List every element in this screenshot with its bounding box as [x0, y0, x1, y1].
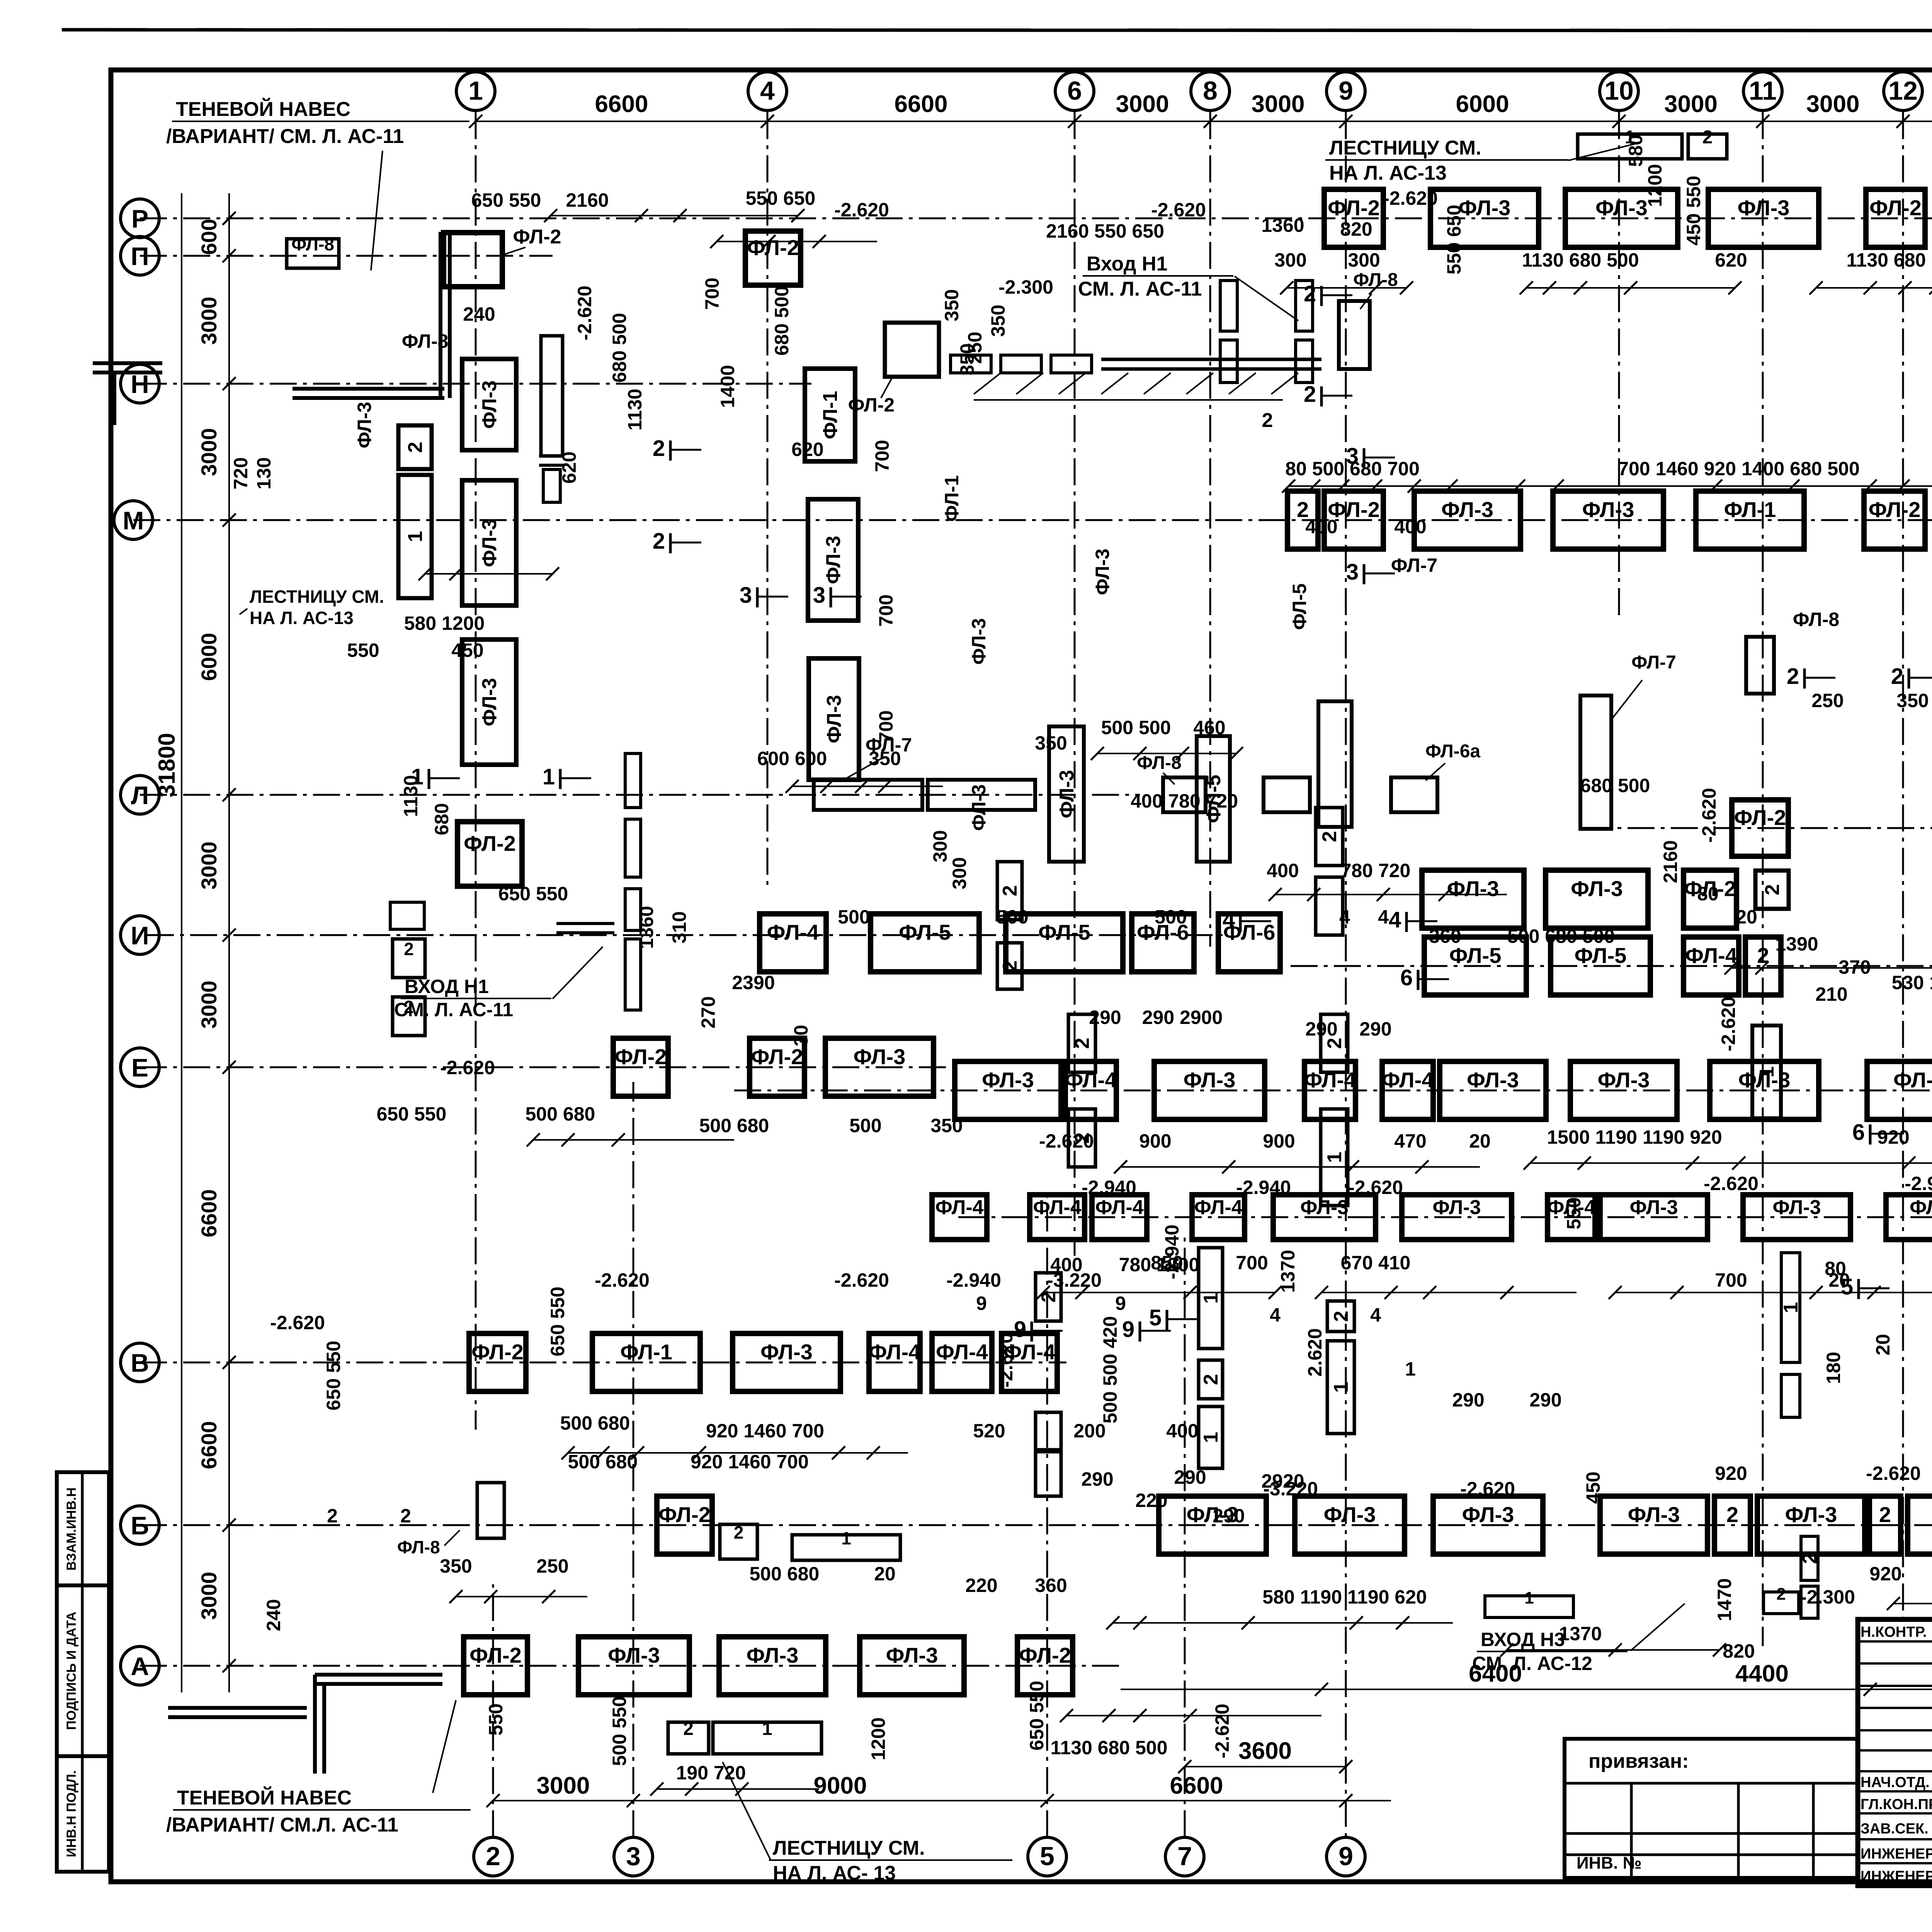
svg-text:ФЛ-7: ФЛ-7 [1631, 652, 1676, 673]
svg-text:ФЛ-4: ФЛ-4 [1382, 1068, 1434, 1092]
svg-text:ФЛ-8: ФЛ-8 [397, 1537, 440, 1557]
svg-text:ФЛ-3: ФЛ-3 [823, 695, 845, 743]
svg-text:400: 400 [1267, 860, 1299, 881]
foundation slab ФЛ-3 row Б [1159, 1496, 1266, 1554]
svg-text:ФЛ-3: ФЛ-3 [822, 536, 845, 584]
svg-text:9: 9 [1115, 1293, 1126, 1314]
svg-text:600: 600 [197, 219, 221, 255]
axis circle Л left [121, 776, 159, 814]
svg-text:620: 620 [791, 439, 823, 460]
svg-text:ФЛ-8: ФЛ-8 [291, 234, 334, 254]
wall block 1 col9 e [1327, 1341, 1354, 1434]
svg-text:1360: 1360 [1261, 214, 1304, 236]
svg-text:650 550: 650 550 [498, 883, 568, 905]
axis line 12 [1902, 112, 1904, 1617]
svg-text:НА Л. АС-13: НА Л. АС-13 [1329, 162, 1447, 184]
svg-text:520: 520 [973, 1420, 1005, 1442]
svg-text:450: 450 [1582, 1471, 1604, 1503]
sidebar box ИНВ.Н ПОДЛ. [57, 1756, 109, 1872]
foundation slab ФЛ-3 vert row Л [1049, 726, 1084, 862]
wall block 58 col1 [390, 902, 424, 929]
svg-text:3: 3 [1346, 444, 1359, 469]
svg-text:-2.940: -2.940 [946, 1269, 1001, 1291]
foundation slab 2 row Б [1869, 1496, 1901, 1554]
svg-text:ФЛ-2: ФЛ-2 [1328, 196, 1380, 220]
axis line Г [958, 1216, 1932, 1218]
foundation slab ФЛ-3 row Г [1600, 1195, 1708, 1240]
svg-text:920: 920 [1869, 1563, 1901, 1585]
wall block col5 c [1036, 1452, 1061, 1496]
svg-text:-2.940: -2.940 [1082, 1177, 1136, 1198]
svg-text:2: 2 [1071, 1038, 1094, 1049]
svg-text:3000: 3000 [197, 297, 221, 345]
foundation slab ФЛ-3 col4 a [808, 499, 858, 621]
svg-text:4: 4 [1370, 1304, 1381, 1326]
svg-text:-2.620: -2.620 [1211, 1704, 1233, 1759]
svg-text:НАЧ.ОТД.: НАЧ.ОТД. [1861, 1774, 1930, 1791]
svg-text:220: 220 [1135, 1490, 1167, 1511]
svg-text:130: 130 [253, 457, 275, 489]
svg-text:ТЕНЕВОЙ НАВЕС: ТЕНЕВОЙ НАВЕС [177, 1786, 352, 1809]
svg-text:ФЛ-3: ФЛ-3 [968, 784, 990, 831]
svg-text:1130 680 500: 1130 680 500 [1846, 249, 1932, 271]
svg-text:6600: 6600 [1170, 1772, 1223, 1799]
foundation slab 2 row Б [1714, 1496, 1750, 1554]
axis line 10 [1618, 112, 1620, 618]
foundation slab ФЛ-4 row В [1002, 1333, 1057, 1391]
svg-text:920 1460 700: 920 1460 700 [690, 1451, 809, 1473]
svg-text:720: 720 [230, 457, 252, 489]
foundation slab ФЛ-8 col1 row Б [477, 1483, 504, 1538]
foundation slab row Л c [1264, 777, 1310, 812]
wall block 2 col9 vert b [1316, 877, 1343, 935]
axis line Ж [1291, 965, 1932, 967]
svg-text:20: 20 [1872, 1334, 1894, 1355]
svg-text:-2.620: -2.620 [1348, 1177, 1403, 1198]
svg-text:ФЛ-3: ФЛ-3 [854, 1044, 906, 1069]
svg-text:ЛЕСТНИЦУ СМ.: ЛЕСТНИЦУ СМ. [1329, 137, 1481, 159]
axis line 5 (bottom) [1046, 1198, 1048, 1837]
svg-text:ФЛ-2: ФЛ-2 [471, 1340, 524, 1364]
svg-text:6000: 6000 [1456, 91, 1509, 117]
svg-text:НА Л. АС-13: НА Л. АС-13 [250, 608, 354, 628]
foundation slab ФЛ-3 row А [860, 1637, 964, 1695]
svg-text:500 500 420: 500 500 420 [1099, 1316, 1121, 1423]
svg-text:ФЛ-2: ФЛ-2 [615, 1044, 667, 1069]
svg-text:6: 6 [1852, 1120, 1865, 1145]
bottom dimension chain [493, 1800, 1391, 1801]
svg-text:10: 10 [1604, 76, 1634, 105]
svg-text:ФЛ-2: ФЛ-2 [1869, 497, 1921, 522]
foundation slab ФЛ-2 row К col11 [1732, 800, 1788, 856]
axis circle Б left [121, 1506, 159, 1544]
svg-text:ЛЕСТНИЦУ СМ.: ЛЕСТНИЦУ СМ. [773, 1837, 925, 1859]
wall block 2 col12 c [1801, 1536, 1818, 1580]
svg-text:-2.620: -2.620 [1698, 788, 1720, 843]
svg-text:ФЛ-3: ФЛ-3 [1595, 196, 1648, 220]
svg-text:ФЛ-4: ФЛ-4 [869, 1340, 921, 1364]
wall lines left И [556, 922, 614, 925]
svg-text:190 720: 190 720 [676, 1762, 746, 1784]
svg-text:4: 4 [760, 76, 775, 105]
svg-text:1370: 1370 [1559, 1623, 1602, 1645]
svg-text:ФЛ-3: ФЛ-3 [1910, 1196, 1932, 1219]
svg-text:3000: 3000 [1664, 91, 1718, 117]
svg-text:11: 11 [1749, 76, 1777, 105]
svg-text:ФЛ-3: ФЛ-3 [1628, 1502, 1680, 1527]
svg-text:2: 2 [683, 1719, 694, 1739]
svg-text:-2.940: -2.940 [1161, 1225, 1183, 1279]
svg-text:ФЛ-4: ФЛ-4 [1194, 1196, 1242, 1219]
svg-text:2: 2 [999, 885, 1021, 896]
svg-text:-2.620: -2.620 [1383, 187, 1438, 209]
svg-text:ФЛ-2: ФЛ-2 [1019, 1643, 1071, 1667]
svg-text:400 780 720: 400 780 720 [1131, 790, 1238, 812]
foundation slab ФЛ-1 row М [1696, 491, 1804, 549]
svg-text:5: 5 [1149, 1305, 1162, 1330]
svg-text:20: 20 [1736, 906, 1757, 928]
svg-text:300: 300 [1348, 249, 1380, 271]
svg-text:3: 3 [1346, 560, 1359, 585]
svg-text:9: 9 [976, 1293, 987, 1314]
svg-text:ФЛ-3: ФЛ-3 [1092, 549, 1113, 595]
top middle wall row [951, 355, 991, 373]
svg-text:920: 920 [1715, 1463, 1747, 1484]
svg-text:20: 20 [874, 1563, 896, 1585]
svg-text:350: 350 [869, 748, 901, 769]
title block [1858, 1619, 1932, 1886]
svg-text:450: 450 [451, 639, 483, 661]
svg-text:/ВАРИАНТ/ СМ.Л. АС-11: /ВАРИАНТ/ СМ.Л. АС-11 [166, 1814, 398, 1836]
foundation slab ФЛ-2 row А [1017, 1637, 1073, 1695]
svg-text:290: 290 [1081, 1468, 1113, 1490]
svg-text:4: 4 [1270, 1304, 1281, 1326]
axis circle 6 [1055, 72, 1094, 111]
foundation slab ФЛ-2 row А [464, 1637, 527, 1695]
svg-text:ИНЖЕНЕР: ИНЖЕНЕР [1861, 1868, 1932, 1884]
svg-text:290: 290 [1452, 1389, 1484, 1411]
svg-text:2: 2 [653, 436, 665, 461]
svg-text:500 500: 500 500 [1101, 717, 1171, 738]
svg-text:2: 2 [486, 1842, 500, 1871]
wall block 2 col9 d [1327, 1301, 1354, 1332]
svg-text:3600: 3600 [1238, 1738, 1292, 1764]
foundation slab ФЛ-1 col4 [805, 369, 855, 461]
svg-text:700: 700 [875, 710, 897, 742]
svg-text:2: 2 [1702, 127, 1713, 148]
axis line В [140, 1362, 1066, 1364]
axis line 3 (bottom) [633, 1082, 634, 1837]
svg-text:ФЛ-3: ФЛ-3 [1056, 770, 1078, 818]
svg-text:-2.620: -2.620 [574, 286, 595, 340]
svg-text:-2.940: -2.940 [1236, 1177, 1291, 1198]
svg-text:1: 1 [841, 1528, 851, 1548]
svg-text:ФЛ-3: ФЛ-3 [1571, 876, 1623, 901]
svg-text:700: 700 [701, 277, 723, 310]
svg-text:700: 700 [871, 440, 893, 472]
svg-text:ФЛ-4: ФЛ-4 [1685, 943, 1737, 968]
axis line П [140, 255, 553, 257]
svg-text:1500 1190 1190 920: 1500 1190 1190 920 [1547, 1126, 1722, 1148]
wall block 2 col1 f [393, 997, 425, 1036]
svg-text:6600: 6600 [895, 91, 948, 117]
svg-text:400: 400 [1166, 1420, 1198, 1442]
svg-text:240: 240 [263, 1599, 284, 1631]
svg-text:2: 2 [327, 1505, 338, 1527]
svg-text:-2.620: -2.620 [1151, 199, 1206, 221]
svg-text:500 680: 500 680 [750, 1563, 820, 1585]
svg-text:ИНВ.Н ПОДЛ.: ИНВ.Н ПОДЛ. [64, 1770, 79, 1857]
svg-text:ФЛ-3: ФЛ-3 [1629, 1196, 1678, 1219]
foundation slab row Л b [928, 780, 1035, 810]
svg-text:-2.620: -2.620 [1866, 1463, 1921, 1484]
svg-text:Вход Н1: Вход Н1 [1087, 253, 1168, 275]
svg-text:ФЛ-3: ФЛ-3 [760, 1340, 813, 1364]
axis line Л [140, 794, 1140, 796]
svg-text:4: 4 [1389, 907, 1401, 932]
svg-text:360: 360 [1429, 925, 1461, 947]
svg-text:1: 1 [468, 76, 483, 105]
foundation slab 2 row М [1287, 491, 1318, 549]
svg-text:9: 9 [1122, 1317, 1134, 1342]
foundation slab ФЛ-2 row Е [613, 1038, 668, 1096]
svg-text:680: 680 [431, 803, 452, 835]
svg-text:400: 400 [1305, 516, 1337, 537]
wall lines top-left Н [293, 387, 444, 391]
svg-text:3: 3 [626, 1842, 641, 1871]
svg-text:900: 900 [1139, 1130, 1171, 1152]
axis line 11 [1762, 112, 1764, 1646]
svg-text:500 550: 500 550 [609, 1696, 630, 1766]
wall lines row А left [315, 1673, 442, 1677]
svg-text:1: 1 [762, 1719, 772, 1739]
svg-text:-2.300: -2.300 [1800, 1586, 1855, 1608]
svg-text:650 550: 650 550 [1026, 1681, 1048, 1751]
foundation slab ФЛ-3 row Р [1430, 189, 1539, 247]
svg-text:ФЛ-2: ФЛ-2 [464, 831, 516, 855]
svg-text:1200: 1200 [867, 1717, 889, 1760]
wall block 2 col9 vert c [1321, 1014, 1348, 1072]
foundation slab ФЛ-3 row Р [1565, 189, 1678, 247]
svg-text:6000: 6000 [197, 633, 221, 681]
svg-text:привязан:: привязан: [1588, 1750, 1689, 1772]
svg-text:500 680 500: 500 680 500 [1507, 925, 1615, 947]
svg-text:6600: 6600 [197, 1421, 221, 1469]
svg-text:4: 4 [1223, 907, 1235, 932]
svg-text:ФЛ-2: ФЛ-2 [513, 226, 561, 248]
svg-text:1200: 1200 [1644, 164, 1666, 207]
svg-text:550: 550 [485, 1703, 507, 1735]
foundation slab ФЛ-3 row М [1414, 491, 1520, 549]
wall block 1 bottom right [1485, 1596, 1573, 1617]
axis circle 12 [1884, 72, 1922, 111]
svg-text:700: 700 [1715, 1269, 1747, 1291]
svg-text:ФЛ-4: ФЛ-4 [1033, 1196, 1081, 1219]
foundation slab 2 row Ж [1745, 937, 1781, 995]
svg-text:290: 290 [1213, 1505, 1245, 1527]
svg-text:3000: 3000 [197, 842, 221, 890]
svg-text:680 500: 680 500 [771, 286, 793, 356]
svg-text:650 550: 650 550 [547, 1287, 568, 1357]
svg-text:2: 2 [1776, 1585, 1786, 1604]
wall block 1 row А [713, 1722, 821, 1754]
svg-text:А: А [131, 1652, 149, 1680]
svg-text:СМ. Л. АС-12: СМ. Л. АС-12 [1472, 1653, 1592, 1674]
svg-text:3000: 3000 [197, 981, 221, 1029]
svg-text:ФЛ-8: ФЛ-8 [1137, 753, 1182, 773]
wall block 2 col1 e [393, 939, 425, 978]
svg-text:210: 210 [1815, 983, 1847, 1005]
svg-text:Б: Б [131, 1511, 149, 1540]
svg-text:ГЛ.КОН.ПР: ГЛ.КОН.ПР [1861, 1796, 1932, 1813]
svg-text:6: 6 [1067, 76, 1082, 105]
svg-text:ФЛ-2: ФЛ-2 [848, 394, 895, 416]
svg-text:ФЛ-2: ФЛ-2 [1734, 805, 1786, 830]
svg-text:2160 550 650: 2160 550 650 [1046, 220, 1164, 242]
svg-text:-2.620: -2.620 [834, 1269, 889, 1291]
foundation slab ФЛ-3 row К b [1546, 870, 1648, 928]
svg-text:290: 290 [1359, 1018, 1391, 1040]
svg-text:ФЛ-2: ФЛ-2 [658, 1502, 711, 1527]
svg-text:ФЛ-5: ФЛ-5 [1038, 920, 1090, 944]
svg-text:ФЛ-2: ФЛ-2 [1869, 196, 1922, 220]
svg-text:2: 2 [1879, 1502, 1891, 1527]
axis circle 4 [748, 72, 787, 111]
svg-text:220: 220 [965, 1575, 997, 1596]
left dimension chain [228, 193, 230, 1692]
wall block 2 col6 vert b [1068, 1109, 1095, 1167]
svg-text:ФЛ-3: ФЛ-3 [1893, 1068, 1932, 1092]
axis circle П left [121, 236, 159, 275]
svg-text:М: М [123, 506, 144, 535]
svg-text:1: 1 [1200, 1432, 1222, 1443]
svg-text:2: 2 [404, 939, 414, 959]
svg-text:4400: 4400 [1735, 1660, 1789, 1687]
wall block 2 row Б small [720, 1524, 757, 1559]
foundation slab ФЛ-3 row К a [1422, 870, 1524, 928]
svg-text:5: 5 [1841, 1274, 1853, 1299]
svg-text:2: 2 [1304, 382, 1316, 407]
svg-text:250: 250 [1811, 690, 1844, 711]
svg-text:20: 20 [1469, 1130, 1491, 1152]
foundation slab ФЛ-6 row И [1218, 914, 1280, 972]
entry blocks top [1220, 281, 1237, 331]
foundation slab ФЛ-5 vert row Л [1197, 736, 1230, 862]
svg-text:9: 9 [1338, 76, 1353, 105]
svg-text:500 680: 500 680 [560, 1412, 630, 1434]
svg-text:2390: 2390 [732, 972, 775, 993]
svg-text:ФЛ-3: ФЛ-3 [1447, 876, 1499, 901]
svg-text:ЗАВ.СЕК.: ЗАВ.СЕК. [1861, 1821, 1929, 1837]
svg-text:4: 4 [1339, 906, 1350, 928]
svg-text:НА Л. АС- 13: НА Л. АС- 13 [773, 1862, 896, 1884]
axis circle Р left [121, 199, 159, 238]
wall block 1 col11 b [1752, 1026, 1781, 1118]
foundation slab ФЛ-5 row Ж [1424, 937, 1526, 995]
bottom dim 6400/4400 [1121, 1689, 1932, 1690]
foundation slab ФЛ-3 row А [719, 1637, 826, 1695]
svg-text:270: 270 [697, 996, 719, 1028]
secondary dimension chains [551, 215, 798, 216]
svg-text:2: 2 [1726, 1502, 1738, 1527]
svg-text:2160: 2160 [1660, 840, 1681, 883]
wall block 1 row Р [1578, 134, 1682, 159]
axis circle И left [121, 916, 159, 954]
axis line К [1584, 827, 1932, 829]
foundation slab ФЛ-3 row Р [1708, 189, 1819, 247]
svg-text:ФЛ-3: ФЛ-3 [478, 519, 501, 567]
axis line Р [140, 218, 1932, 219]
axis line Н [140, 383, 811, 385]
wall block 2 row Р [1688, 134, 1727, 159]
foundation slab ФЛ-2 mid top [885, 323, 939, 377]
bottom dim 3600 [1185, 1766, 1346, 1767]
svg-text:1: 1 [1524, 1588, 1534, 1607]
svg-text:9: 9 [1338, 1842, 1353, 1871]
svg-text:ФЛ-3: ФЛ-3 [478, 380, 501, 429]
svg-text:4: 4 [1378, 906, 1389, 928]
svg-text:ФЛ-3: ФЛ-3 [982, 1068, 1034, 1092]
axis circle 3 bottom [614, 1837, 653, 1876]
svg-text:2: 2 [404, 442, 427, 453]
sidebar box ПОДПИСЬ И ДАТА [57, 1585, 109, 1756]
svg-text:ФЛ-5: ФЛ-5 [1289, 583, 1310, 630]
svg-text:1: 1 [411, 764, 423, 789]
svg-text:ФЛ-3: ФЛ-3 [478, 678, 501, 726]
axis line 2 (bottom) [492, 1584, 494, 1837]
wall block 1 col12 b [1781, 1374, 1800, 1417]
svg-text:СМ. Л. АС-11: СМ. Л. АС-11 [1078, 278, 1202, 300]
svg-text:ВЗАМ.ИНВ.Н: ВЗАМ.ИНВ.Н [64, 1487, 79, 1570]
svg-text:250: 250 [536, 1555, 568, 1577]
foundation slab ФЛ-7 vert col10 [1580, 696, 1611, 829]
axis line 8 [1209, 112, 1211, 947]
foundation slab ФЛ-3 row Е [825, 1038, 934, 1096]
svg-text:1130 680 500: 1130 680 500 [1050, 1737, 1167, 1759]
axis line Д [734, 1090, 1932, 1092]
wall block small mid a [997, 862, 1022, 920]
svg-text:1400: 1400 [717, 365, 738, 408]
foundation slab ФЛ-3 row Г [1402, 1195, 1512, 1240]
svg-text:ФЛ-1: ФЛ-1 [1724, 497, 1776, 522]
svg-text:31800: 31800 [154, 733, 180, 798]
wall block 1 col1 [398, 475, 432, 598]
foundation slab ФЛ-2 row Е [750, 1038, 804, 1096]
svg-text:1390: 1390 [1775, 933, 1818, 955]
wall block 2 row А [668, 1722, 709, 1754]
svg-text:-2.620: -2.620 [595, 1269, 650, 1291]
hatching вход Н1 wall [974, 373, 1001, 394]
axis line Б [140, 1524, 1932, 1526]
svg-text:-3.220: -3.220 [1263, 1478, 1318, 1500]
svg-text:-2.620: -2.620 [270, 1312, 325, 1333]
foundation slab ФЛ-2 row М [1324, 491, 1383, 549]
svg-text:-2.620: -2.620 [1704, 1173, 1759, 1194]
svg-text:ФЛ-7: ФЛ-7 [1391, 554, 1437, 576]
svg-text:1130 680 500: 1130 680 500 [1522, 249, 1639, 271]
foundation slab ФЛ-3 row А [578, 1637, 689, 1695]
svg-text:6600: 6600 [197, 1189, 221, 1238]
svg-text:3000: 3000 [1806, 91, 1860, 117]
axis circle 9 [1327, 72, 1365, 111]
wall block 2 col11 a [1755, 871, 1789, 909]
svg-text:290: 290 [1305, 1018, 1337, 1040]
svg-text:-2.620: -2.620 [995, 1333, 1017, 1388]
axis circle 7 bottom [1165, 1837, 1204, 1876]
foundation slab ФЛ-3 row Д [955, 1061, 1061, 1119]
svg-text:ФЛ-3: ФЛ-3 [1785, 1502, 1837, 1527]
svg-text:2: 2 [1891, 664, 1903, 689]
